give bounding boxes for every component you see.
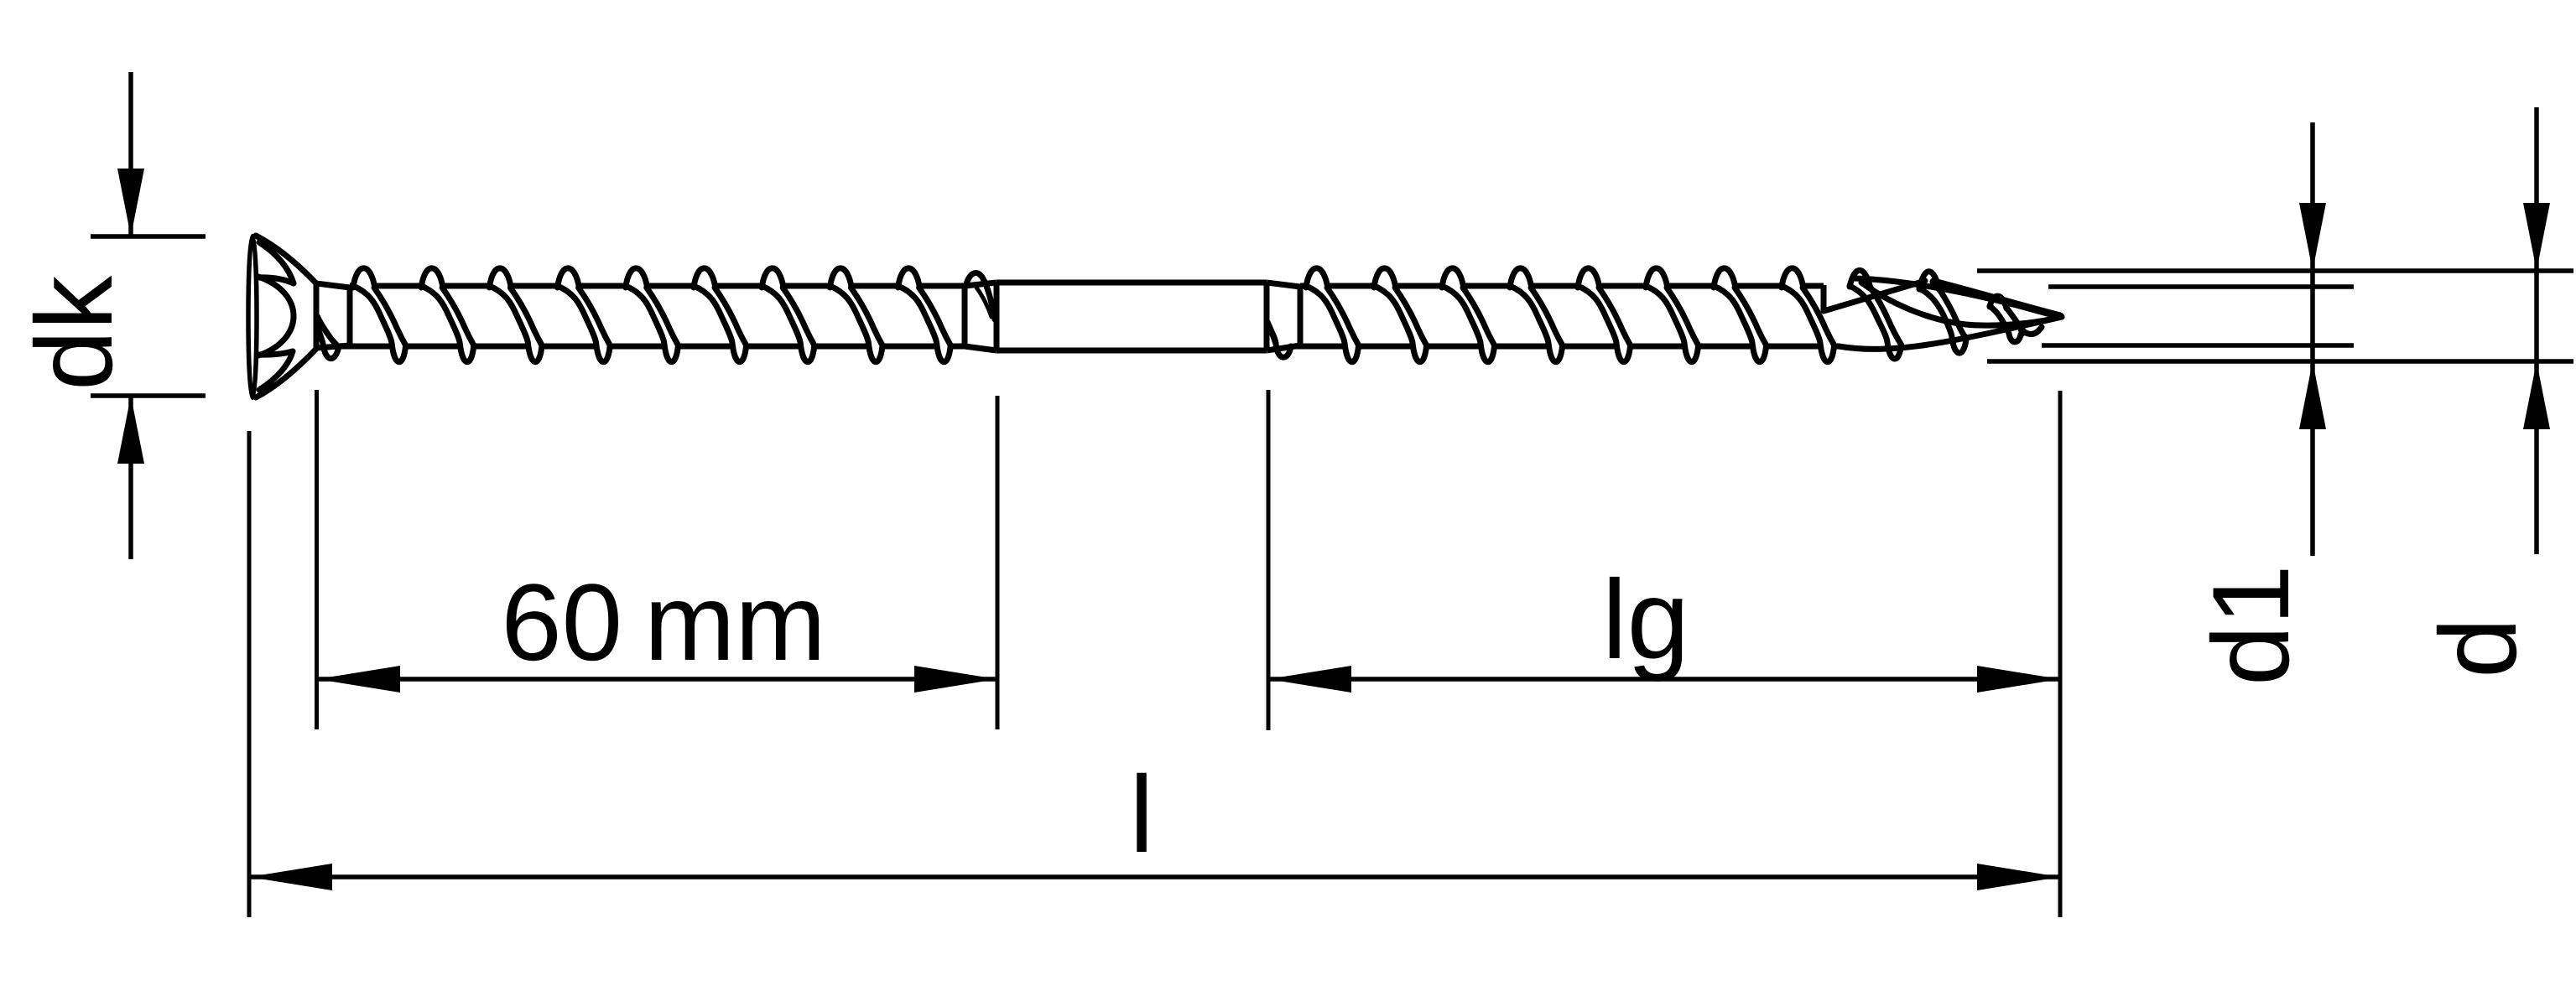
svg-text:dk: dk: [13, 275, 135, 391]
svg-text:d: d: [2417, 618, 2539, 678]
svg-text:d1: d1: [2189, 564, 2312, 686]
svg-text:60 mm: 60 mm: [501, 561, 825, 683]
svg-text:l: l: [1130, 753, 1154, 875]
svg-text:lg: lg: [1602, 558, 1689, 682]
